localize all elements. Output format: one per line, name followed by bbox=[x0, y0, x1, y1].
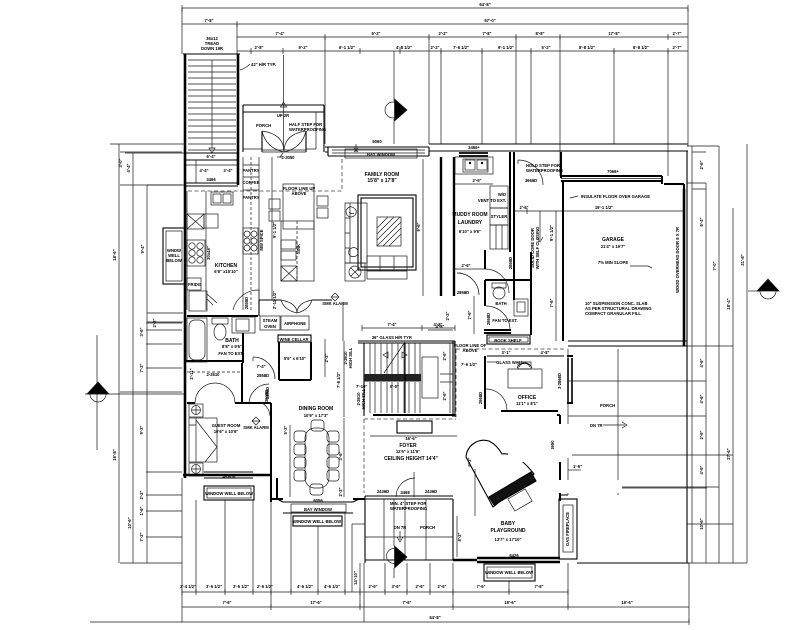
svg-text:2868D: 2868D bbox=[478, 392, 483, 404]
svg-text:PANTRY: PANTRY bbox=[243, 195, 260, 200]
svg-text:2'-4": 2'-4" bbox=[223, 168, 232, 173]
svg-text:7'-8": 7'-8" bbox=[204, 18, 213, 23]
porch bottom-left block bbox=[365, 496, 453, 563]
rug bbox=[358, 195, 416, 270]
svg-text:2'-6": 2'-6" bbox=[699, 430, 704, 439]
svg-text:BAY WINDOW: BAY WINDOW bbox=[304, 507, 332, 512]
svg-text:2868D: 2868D bbox=[508, 257, 513, 269]
svg-text:7'-6 1/2": 7'-6 1/2" bbox=[453, 45, 469, 50]
svg-text:VENT TO EXT.: VENT TO EXT. bbox=[478, 198, 506, 203]
treads upper bbox=[370, 343, 420, 374]
bath door bbox=[253, 357, 275, 379]
W/D bbox=[490, 186, 508, 208]
svg-text:ABOVE: ABOVE bbox=[292, 191, 307, 196]
svg-text:7'-8": 7'-8" bbox=[482, 31, 491, 36]
svg-text:57'-0": 57'-0" bbox=[484, 18, 495, 23]
svg-text:FRIDG: FRIDG bbox=[188, 282, 201, 287]
hall dims bbox=[514, 208, 684, 214]
svg-text:2'-6": 2'-6" bbox=[442, 351, 447, 360]
svg-text:FAN TO EXT.: FAN TO EXT. bbox=[218, 351, 243, 356]
fridge bbox=[187, 278, 201, 290]
window well bbox=[204, 486, 254, 500]
svg-text:GARAGE: GARAGE bbox=[602, 237, 625, 243]
svg-text:31'-8": 31'-8" bbox=[740, 254, 745, 265]
watermark streaks bbox=[475, 409, 622, 493]
bottom dim rows bbox=[182, 589, 568, 595]
svg-text:10'-6": 10'-6" bbox=[127, 517, 132, 528]
svg-text:7'-6": 7'-6" bbox=[476, 584, 485, 589]
sink top bbox=[211, 192, 233, 205]
stair block right wall bbox=[237, 54, 240, 185]
hall door top bbox=[518, 160, 543, 185]
svg-text:3'-6 1/2": 3'-6 1/2" bbox=[233, 584, 249, 589]
svg-text:8'8" x 9'6": 8'8" x 9'6" bbox=[222, 344, 242, 349]
oven X box bbox=[187, 214, 204, 229]
svg-text:6'10" x 9'6": 6'10" x 9'6" bbox=[459, 229, 481, 234]
svg-text:AIRPHONE: AIRPHONE bbox=[284, 321, 306, 326]
dim row 2 top bbox=[182, 21, 688, 27]
svg-text:7'-2": 7'-2" bbox=[139, 363, 144, 372]
island X bbox=[281, 266, 297, 281]
svg-text:2'-8": 2'-8" bbox=[254, 45, 263, 50]
svg-text:CEILING HEIGHT 14'4": CEILING HEIGHT 14'4" bbox=[384, 456, 438, 462]
office top wall bbox=[487, 355, 564, 357]
svg-text:W/D: W/D bbox=[498, 192, 506, 197]
window well below bbox=[484, 564, 535, 581]
svg-text:3-2868D: 3-2868D bbox=[557, 373, 562, 389]
svg-text:7'-4": 7'-4" bbox=[256, 364, 265, 369]
dim row 3 top bbox=[237, 34, 688, 40]
svg-text:8'-2": 8'-2" bbox=[457, 532, 462, 541]
svg-text:64'-8": 64'-8" bbox=[429, 615, 440, 620]
toilet bbox=[212, 318, 228, 324]
svg-text:DN 7R: DN 7R bbox=[590, 423, 603, 428]
door bbox=[486, 306, 510, 330]
svg-text:DINING ROOM: DINING ROOM bbox=[299, 406, 333, 412]
center rail bbox=[211, 60, 213, 148]
dims above bbox=[362, 325, 455, 331]
nightstands bbox=[189, 404, 203, 417]
svg-text:5'6" x 6'10": 5'6" x 6'10" bbox=[284, 356, 306, 361]
svg-text:5'-2": 5'-2" bbox=[283, 425, 288, 434]
svg-text:64'-8": 64'-8" bbox=[479, 2, 490, 7]
styler bbox=[490, 208, 508, 225]
shelves bbox=[490, 225, 508, 249]
wine cellar bbox=[278, 335, 311, 342]
center table hatched bbox=[377, 217, 401, 246]
side table bbox=[345, 263, 365, 281]
svg-text:6'-2": 6'-2" bbox=[467, 457, 472, 466]
svg-text:2'-6": 2'-6" bbox=[472, 178, 481, 183]
svg-text:WINDOW WELL BELOW: WINDOW WELL BELOW bbox=[205, 491, 253, 496]
svg-text:2'-2": 2'-2" bbox=[139, 490, 144, 499]
svg-text:9'-0": 9'-0" bbox=[390, 384, 399, 389]
svg-text:19'-1 1/2": 19'-1 1/2" bbox=[595, 205, 613, 210]
svg-text:9'-2": 9'-2" bbox=[139, 425, 144, 434]
svg-text:FAN TO EXT.: FAN TO EXT. bbox=[492, 318, 517, 323]
svg-text:8'-8": 8'-8" bbox=[535, 31, 544, 36]
diagonal bbox=[384, 342, 405, 373]
svg-text:2'-2": 2'-2" bbox=[445, 311, 450, 320]
svg-text:3466: 3466 bbox=[206, 177, 216, 182]
inner opening bbox=[422, 357, 438, 398]
left dim columns bbox=[119, 144, 147, 563]
svg-text:MW SPICE: MW SPICE bbox=[259, 229, 264, 250]
svg-text:5'-2": 5'-2" bbox=[541, 45, 550, 50]
garage front wall bbox=[561, 152, 684, 189]
door top-left arc bbox=[260, 402, 270, 416]
svg-text:42" H/R TYP.: 42" H/R TYP. bbox=[251, 62, 276, 67]
muddy door bottom bbox=[485, 269, 509, 293]
svg-text:PORCH: PORCH bbox=[256, 123, 271, 128]
svg-text:COFFEE: COFFEE bbox=[243, 180, 260, 185]
dining south wall segments bbox=[271, 498, 365, 500]
vanity bbox=[514, 299, 528, 316]
svg-text:STYLER: STYLER bbox=[491, 214, 508, 219]
svg-text:7'-6 1/2": 7'-6 1/2" bbox=[461, 362, 477, 367]
office door arc bbox=[486, 389, 507, 410]
smoke alarm bbox=[252, 417, 260, 425]
svg-text:9'-1 1/2": 9'-1 1/2" bbox=[498, 45, 514, 50]
svg-text:21'4" x 19'7": 21'4" x 19'7" bbox=[601, 244, 626, 249]
svg-text:11'1" x 8'1": 11'1" x 8'1" bbox=[516, 401, 538, 406]
left dim bbox=[456, 516, 458, 557]
svg-text:7'-10": 7'-10" bbox=[356, 384, 367, 389]
smoke alarm bbox=[331, 293, 339, 301]
svg-text:9'-1 1/2": 9'-1 1/2" bbox=[549, 225, 554, 241]
book shelf bbox=[487, 335, 530, 344]
svg-text:7'-4": 7'-4" bbox=[387, 322, 396, 327]
sink counter bbox=[455, 157, 493, 174]
svg-text:3'-1": 3'-1" bbox=[501, 350, 510, 355]
chair bbox=[517, 363, 532, 368]
kitchen window well bbox=[163, 228, 185, 284]
svg-text:2436D: 2436D bbox=[377, 489, 389, 494]
svg-text:7'-6": 7'-6" bbox=[467, 310, 472, 319]
svg-text:7'-2": 7'-2" bbox=[139, 532, 144, 541]
svg-text:BELOW: BELOW bbox=[166, 258, 182, 263]
treads lower bbox=[370, 382, 420, 413]
svg-text:BABY: BABY bbox=[501, 521, 516, 527]
svg-text:4'-4": 4'-4" bbox=[126, 163, 131, 172]
svg-text:10'9" x 17'3": 10'9" x 17'3" bbox=[304, 413, 329, 418]
svg-text:WOOD OVERHEAD DOOR 8 X 7R: WOOD OVERHEAD DOOR 8 X 7R bbox=[675, 227, 680, 293]
svg-text:9'-1 1/2": 9'-1 1/2" bbox=[272, 222, 277, 238]
svg-text:6'-4": 6'-4" bbox=[206, 154, 215, 159]
svg-text:3'-0": 3'-0" bbox=[118, 158, 123, 167]
arched entry door bbox=[262, 131, 306, 152]
svg-text:12'6" x 11'6": 12'6" x 11'6" bbox=[396, 449, 420, 454]
svg-text:4'-8 1/2": 4'-8 1/2" bbox=[396, 45, 412, 50]
2-3050 window note bbox=[271, 157, 273, 300]
guest room bottom wall bbox=[183, 474, 271, 477]
svg-text:SMK ALARM: SMK ALARM bbox=[243, 425, 269, 430]
svg-text:HIGH SILL: HIGH SILL bbox=[361, 388, 366, 409]
svg-text:INSULATE FLOOR OVER GARAGE: INSULATE FLOOR OVER GARAGE bbox=[581, 194, 650, 199]
svg-text:16'-6": 16'-6" bbox=[405, 436, 416, 441]
left exterior wall bbox=[184, 185, 187, 478]
left tick rows bbox=[120, 152, 182, 563]
svg-text:WINDOW WELL BELOW: WINDOW WELL BELOW bbox=[485, 570, 533, 575]
svg-text:4'-4": 4'-4" bbox=[199, 168, 208, 173]
dashed floor line bbox=[456, 349, 564, 417]
top extension verticals bbox=[182, 8, 688, 176]
svg-text:4'-8": 4'-8" bbox=[433, 322, 442, 327]
section arrow bbox=[387, 499, 408, 578]
island chairs bbox=[269, 199, 280, 209]
svg-text:PORCH: PORCH bbox=[420, 525, 435, 530]
svg-text:2'-6": 2'-6" bbox=[442, 391, 447, 400]
svg-text:4'-6 1/2": 4'-6 1/2" bbox=[297, 584, 313, 589]
svg-text:WATERPROOFING: WATERPROOFING bbox=[390, 506, 427, 511]
svg-text:17'-8": 17'-8" bbox=[608, 31, 619, 36]
svg-text:4-0616: 4-0616 bbox=[222, 474, 236, 479]
arch double door hall bbox=[281, 300, 312, 313]
bench bbox=[508, 489, 532, 511]
svg-text:2868D: 2868D bbox=[457, 290, 469, 295]
svg-text:DOWN 19R: DOWN 19R bbox=[201, 46, 223, 51]
pantry column bbox=[243, 157, 259, 310]
tub bbox=[187, 318, 207, 362]
svg-text:18'-4": 18'-4" bbox=[726, 298, 731, 309]
svg-text:LAUNDRY: LAUNDRY bbox=[458, 220, 483, 226]
svg-text:WINE CELLAR: WINE CELLAR bbox=[279, 337, 308, 342]
svg-text:2'-11": 2'-11" bbox=[189, 368, 194, 379]
right dim columns bbox=[692, 144, 747, 563]
svg-text:8'-8 1/2": 8'-8 1/2" bbox=[579, 45, 595, 50]
svg-text:2'-2": 2'-2" bbox=[324, 353, 329, 362]
svg-text:8'-8 1/2": 8'-8 1/2" bbox=[633, 45, 649, 50]
svg-text:9'-2": 9'-2" bbox=[371, 31, 380, 36]
svg-text:3'-6": 3'-6" bbox=[391, 584, 400, 589]
jog to dining bay bbox=[271, 475, 277, 502]
svg-text:7'-6": 7'-6" bbox=[534, 584, 543, 589]
family right wall bbox=[441, 157, 454, 296]
svg-text:2'-6": 2'-6" bbox=[519, 205, 528, 210]
svg-text:2'-7": 2'-7" bbox=[672, 45, 681, 50]
chairs right bbox=[327, 431, 339, 442]
svg-text:3466+: 3466+ bbox=[468, 145, 480, 150]
svg-text:15'8" x 17'8": 15'8" x 17'8" bbox=[367, 178, 397, 184]
svg-text:2'-6": 2'-6" bbox=[699, 160, 704, 169]
svg-text:COMPACT GRANULAR FILL: COMPACT GRANULAR FILL bbox=[585, 311, 641, 316]
island sinks bbox=[281, 240, 296, 249]
window bottom bbox=[204, 472, 253, 478]
bed bbox=[189, 418, 217, 462]
svg-text:18'-6": 18'-6" bbox=[112, 249, 117, 260]
svg-text:9'-2": 9'-2" bbox=[298, 45, 307, 50]
vanity bbox=[232, 317, 255, 333]
svg-text:7'-0": 7'-0" bbox=[712, 261, 717, 270]
svg-text:7'-6": 7'-6" bbox=[222, 600, 231, 605]
svg-text:7'-6": 7'-6" bbox=[549, 298, 554, 307]
svg-text:30x48": 30x48" bbox=[206, 246, 211, 260]
svg-text:UP 2R: UP 2R bbox=[277, 113, 289, 118]
svg-text:2'-2": 2'-2" bbox=[438, 31, 447, 36]
svg-text:27'-6": 27'-6" bbox=[726, 448, 731, 459]
svg-text:WITH SELF CLOSING: WITH SELF CLOSING bbox=[535, 227, 540, 270]
dims bbox=[289, 425, 291, 497]
svg-text:GUEST ROOM: GUEST ROOM bbox=[212, 423, 241, 428]
door from hall bbox=[457, 273, 479, 295]
svg-text:7'-6": 7'-6" bbox=[402, 600, 411, 605]
svg-text:16'-8": 16'-8" bbox=[112, 449, 117, 460]
right porch edge bbox=[686, 151, 688, 563]
svg-text:OVEN: OVEN bbox=[264, 324, 276, 329]
bottom extension verticals bbox=[182, 478, 689, 622]
svg-text:10'6" x 10'6": 10'6" x 10'6" bbox=[214, 429, 239, 434]
stair top bbox=[183, 53, 240, 55]
svg-text:13'7" x 17'10": 13'7" x 17'10" bbox=[495, 537, 522, 542]
svg-text:2'-2": 2'-2" bbox=[430, 45, 439, 50]
svg-text:7068+: 7068+ bbox=[607, 169, 619, 174]
walls bbox=[483, 356, 558, 412]
svg-text:3666D: 3666D bbox=[525, 178, 537, 183]
svg-text:BAY WINDOW: BAY WINDOW bbox=[367, 152, 395, 157]
closet below bath bbox=[187, 371, 242, 373]
svg-text:WATERPROOFING: WATERPROOFING bbox=[526, 168, 563, 173]
svg-text:5060: 5060 bbox=[372, 139, 382, 144]
door arc up bbox=[396, 472, 415, 497]
svg-text:2-3050: 2-3050 bbox=[281, 155, 295, 160]
svg-text:3648D: 3648D bbox=[264, 390, 269, 402]
L sofa bbox=[345, 203, 367, 263]
svg-text:4'-6": 4'-6" bbox=[699, 465, 704, 474]
loveseat bbox=[367, 256, 407, 279]
baby playground south wall bbox=[453, 558, 560, 562]
chairs left bbox=[294, 431, 306, 442]
svg-text:2'-6": 2'-6" bbox=[415, 584, 424, 589]
svg-text:2868D: 2868D bbox=[486, 313, 491, 325]
svg-text:PLAYGROUND: PLAYGROUND bbox=[490, 528, 525, 534]
garage left wall bbox=[562, 181, 564, 341]
ref bubble left bbox=[85, 382, 185, 402]
svg-text:7'-4": 7'-4" bbox=[275, 31, 284, 36]
svg-text:2-2610: 2-2610 bbox=[206, 372, 220, 377]
svg-text:WINDOW WELL BELOW: WINDOW WELL BELOW bbox=[293, 519, 341, 524]
piano bbox=[466, 440, 536, 507]
left dim bbox=[343, 341, 345, 417]
svg-text:GAS FIREPLACE: GAS FIREPLACE bbox=[565, 512, 570, 546]
svg-text:2'-6": 2'-6" bbox=[461, 263, 470, 268]
svg-text:2'-6": 2'-6" bbox=[437, 584, 446, 589]
svg-text:4'-6": 4'-6" bbox=[699, 394, 704, 403]
svg-text:4'-6 1/2": 4'-6 1/2" bbox=[324, 584, 340, 589]
svg-text:1'-6": 1'-6" bbox=[139, 506, 144, 515]
garage bottom wall bbox=[568, 341, 687, 346]
double door bbox=[195, 383, 235, 403]
svg-text:6'8" x15'10": 6'8" x15'10" bbox=[214, 269, 237, 274]
svg-text:19'-6": 19'-6" bbox=[621, 600, 632, 605]
svg-text:2'-6": 2'-6" bbox=[368, 584, 377, 589]
burners bbox=[187, 240, 205, 266]
glass wall note bbox=[487, 361, 497, 363]
svg-text:SINK: SINK bbox=[296, 244, 301, 254]
svg-text:3'-6": 3'-6" bbox=[139, 327, 144, 336]
svg-text:ABOVE: ABOVE bbox=[463, 348, 478, 353]
dim row 1 top bbox=[182, 5, 688, 12]
42 H/R note bbox=[240, 64, 250, 70]
svg-text:10'-6": 10'-6" bbox=[699, 518, 704, 529]
island bbox=[283, 184, 314, 229]
hall north walls bbox=[259, 300, 332, 316]
svg-text:BOOK SHELF: BOOK SHELF bbox=[494, 338, 522, 343]
closet bottom-left bbox=[189, 291, 207, 311]
desk bbox=[508, 369, 542, 388]
svg-text:2868D: 2868D bbox=[244, 297, 249, 309]
svg-text:3468: 3468 bbox=[400, 490, 410, 495]
vestibule window bbox=[186, 183, 238, 186]
stair block left wall bbox=[184, 54, 187, 185]
svg-text:3'-6 1/2": 3'-6 1/2" bbox=[206, 584, 222, 589]
dim row 4 top bbox=[237, 48, 688, 54]
svg-text:9'-6": 9'-6" bbox=[416, 222, 421, 231]
svg-text:14'-10": 14'-10" bbox=[353, 571, 358, 585]
svg-text:BATH: BATH bbox=[495, 301, 506, 306]
svg-text:2868D: 2868D bbox=[257, 373, 269, 378]
svg-text:MUDDY ROOM: MUDDY ROOM bbox=[452, 212, 487, 218]
svg-text:WATERPROOFING: WATERPROOFING bbox=[289, 127, 326, 132]
kitchen door bottom bbox=[233, 290, 259, 310]
porch grid bbox=[365, 499, 453, 560]
table bbox=[305, 428, 329, 488]
svg-text:19'-6": 19'-6" bbox=[504, 600, 515, 605]
svg-text:3'-6": 3'-6" bbox=[338, 451, 343, 460]
svg-text:2436D: 2436D bbox=[425, 489, 437, 494]
svg-text:7% MIN SLOPE: 7% MIN SLOPE bbox=[598, 260, 628, 265]
svg-text:PANTRY: PANTRY bbox=[243, 168, 260, 173]
svg-text:7'-6 1/2": 7'-6 1/2" bbox=[336, 372, 341, 388]
svg-text:2'-4 1/2": 2'-4 1/2" bbox=[180, 584, 196, 589]
stove right bbox=[243, 228, 258, 254]
svg-text:4'-8": 4'-8" bbox=[540, 350, 549, 355]
svg-text:9'-4": 9'-4" bbox=[140, 244, 145, 253]
svg-text:6'-4": 6'-4" bbox=[699, 217, 704, 226]
dim right of wine cellar bbox=[324, 339, 326, 377]
toilet bbox=[492, 283, 506, 288]
steam oven / airphone bbox=[260, 316, 280, 330]
ref bubble right C bbox=[748, 279, 779, 299]
landing bar bbox=[364, 374, 421, 382]
top-left porch ref bubble bbox=[385, 51, 407, 144]
svg-text:2'-2": 2'-2" bbox=[338, 487, 343, 496]
svg-text:SMK ALARM: SMK ALARM bbox=[322, 301, 348, 306]
stair vestibule bbox=[186, 153, 238, 160]
svg-text:PORCH: PORCH bbox=[600, 403, 615, 408]
bath walls bbox=[186, 316, 258, 363]
garage right wall bbox=[683, 189, 686, 346]
floor line dashed bbox=[188, 157, 342, 191]
svg-text:4'-6": 4'-6" bbox=[699, 358, 704, 367]
svg-text:2'-7": 2'-7" bbox=[672, 31, 681, 36]
svg-text:DN 7R: DN 7R bbox=[394, 525, 407, 530]
svg-text:2'-2": 2'-2" bbox=[152, 318, 157, 327]
treads bbox=[188, 60, 236, 150]
svg-text:1'-6": 1'-6" bbox=[573, 464, 582, 469]
svg-text:STEAM: STEAM bbox=[263, 318, 278, 323]
svg-text:17'-6": 17'-6" bbox=[310, 600, 321, 605]
hall-dining door bbox=[249, 384, 269, 404]
svg-text:6'-1 1/2": 6'-1 1/2" bbox=[339, 45, 355, 50]
kitchen left appliance column bbox=[187, 191, 206, 310]
chairs top/bottom bbox=[311, 420, 324, 431]
svg-text:2'-6 1/2": 2'-6 1/2" bbox=[257, 584, 273, 589]
north wall: bay to muddy bbox=[325, 144, 688, 152]
svg-text:6426: 6426 bbox=[509, 553, 519, 558]
svg-text:36" GLASS H/R TYP.: 36" GLASS H/R TYP. bbox=[372, 335, 413, 340]
svg-text:HIGH SILL: HIGH SILL bbox=[348, 347, 353, 368]
